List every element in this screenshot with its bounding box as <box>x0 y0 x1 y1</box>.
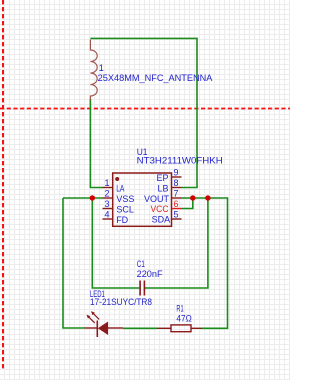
capacitor C1 220nF <box>140 281 144 296</box>
inductor L1 25X48MM_NFC_ANTENNA <box>90 40 97 101</box>
svg-text:1: 1 <box>104 178 109 188</box>
pin 4 FD stub <box>103 218 113 220</box>
wire: L1 bottom to pin LA <box>90 99 102 188</box>
svg-text:1: 1 <box>99 63 104 73</box>
svg-text:VOUT: VOUT <box>144 194 170 204</box>
svg-text:4: 4 <box>104 209 109 219</box>
frame: vertical red dashed boundary <box>2 0 4 371</box>
svg-text:R1: R1 <box>176 303 183 313</box>
svg-text:EP: EP <box>156 173 168 183</box>
R1 right lead <box>191 327 202 329</box>
svg-text:SCL: SCL <box>116 204 134 214</box>
svg-text:7: 7 <box>174 188 179 198</box>
wire: VOUT-VCC link <box>182 198 193 209</box>
wire: LED cathode to R1 left <box>123 327 158 329</box>
svg-text:6: 6 <box>174 199 179 209</box>
LED1 left lead <box>85 327 98 329</box>
pin 6 VCC stub <box>172 208 182 210</box>
frame: horizontal red dashed boundary <box>0 108 290 110</box>
wire: VSS branch down to C1 left <box>92 198 139 288</box>
LED1 right lead <box>108 327 123 329</box>
pin 3 SCL stub <box>103 208 113 210</box>
wire: antenna top (L1 top to LB loop) <box>90 38 197 187</box>
R1 left lead <box>158 327 172 329</box>
wire: VOUT branch down to C1 right <box>145 198 208 288</box>
wire: VSS down-left to LED anode <box>63 198 85 328</box>
svg-text:2: 2 <box>104 188 109 198</box>
R1 body <box>171 325 191 332</box>
svg-text:VSS: VSS <box>116 194 134 204</box>
pin 5 SDA stub <box>172 218 182 220</box>
wire: VOUT to right then down to R1 <box>182 198 228 328</box>
svg-text:3: 3 <box>104 199 109 209</box>
LED1 emission arrow lower <box>89 317 95 323</box>
C1 left plate <box>139 281 141 296</box>
wire: VSS net horizontal <box>63 197 103 199</box>
svg-text:5: 5 <box>174 209 179 219</box>
LED1 17-21SUYC/TR8 <box>85 311 124 337</box>
LED1 triangle <box>98 322 107 334</box>
LED1 emission arrow upper <box>94 314 100 320</box>
pin 9 EP stub <box>172 176 182 178</box>
pin 2 VSS stub <box>103 197 113 199</box>
svg-text:FD: FD <box>116 215 128 225</box>
svg-text:9: 9 <box>174 167 179 177</box>
junction VOUT/C1 <box>205 195 210 200</box>
svg-text:8: 8 <box>174 178 179 188</box>
svg-text:SDA: SDA <box>152 215 171 225</box>
op/IC U1 body NT3H2111W0FHKH <box>113 173 172 226</box>
svg-text:LA: LA <box>116 183 124 193</box>
svg-text:220nF: 220nF <box>137 269 163 279</box>
svg-text:C1: C1 <box>137 259 145 269</box>
C1 right plate <box>143 281 145 296</box>
junction VOUT/VCC <box>190 195 195 200</box>
svg-text:VCC: VCC <box>151 204 169 214</box>
svg-text:25X48MM_NFC_ANTENNA: 25X48MM_NFC_ANTENNA <box>98 73 213 83</box>
resistor R1 47Ohm <box>158 325 203 332</box>
pin 7 VOUT stub <box>172 197 182 199</box>
junction on VSS net <box>90 195 95 200</box>
LED1 cathode bar <box>96 321 98 338</box>
svg-text:17-21SUYC/TR8: 17-21SUYC/TR8 <box>90 297 152 307</box>
svg-text:LB: LB <box>157 183 168 193</box>
svg-text:47Ω: 47Ω <box>176 313 192 323</box>
U1 pin-1 marker dot <box>115 177 119 181</box>
pin 1 LA stub <box>103 187 113 189</box>
pin 8 LB stub <box>172 187 182 189</box>
svg-text:NT3H2111W0FHKH: NT3H2111W0FHKH <box>137 156 223 166</box>
